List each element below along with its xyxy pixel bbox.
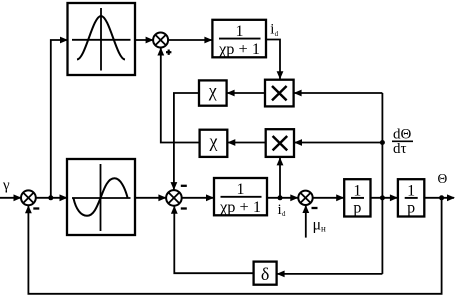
wire D1 output up to S3 bottom [174, 206, 253, 273]
wire theta-dot vertical line [381, 93, 383, 274]
block I1 integrator 1/p first [344, 179, 370, 216]
arrow into M2 right [294, 139, 302, 146]
wire U2 output to S4 [267, 197, 298, 199]
arrow into M2 bottom [277, 157, 284, 165]
arrow into U2 [206, 194, 214, 201]
arrow into S4 left [290, 194, 298, 201]
arrow into S3 left [158, 194, 166, 201]
arrow into cosine block [60, 37, 68, 44]
node theta feedback tap [439, 195, 444, 200]
label mu_H [313, 217, 327, 234]
svg-text:d: d [275, 30, 279, 38]
wire S3 output to U2 [182, 197, 214, 199]
svg-text:γ: γ [2, 178, 10, 194]
block N1 cosine nonlinearity [68, 3, 136, 75]
block N2 sine nonlinearity [67, 159, 135, 235]
block G2 gain chi lower [200, 130, 228, 157]
wire I2 output theta out [424, 197, 454, 199]
summing junction S4 load input [298, 191, 312, 205]
wire branch up to cosine block [51, 40, 68, 198]
svg-text:Θ: Θ [438, 171, 448, 186]
wire theta-dot line into M1 right [294, 92, 382, 94]
arrow into S1 left [146, 37, 154, 44]
wire outer feedback theta to S2 bottom [28, 198, 441, 294]
summing junction S3 after sine [166, 190, 182, 206]
minus sign top at S3 [181, 185, 187, 187]
arrow into D1 right [277, 271, 285, 278]
wire i_d branch up to M2 bottom [279, 157, 281, 197]
arrow into I2 [390, 194, 398, 201]
arrow into G1 right [227, 90, 235, 97]
wire M1 output to G1 [227, 92, 265, 94]
svg-text:χp + 1: χp + 1 [219, 199, 261, 216]
arrow into S2 bottom [25, 205, 32, 213]
wire I1 output to I2 [371, 197, 398, 199]
wire cosine output to S1 [135, 39, 153, 41]
arrow into G2 right [227, 139, 235, 146]
wire S1 output to U1 [168, 39, 212, 41]
wire S2 output to sine block [36, 197, 68, 199]
svg-text:1: 1 [237, 181, 245, 198]
svg-text:p: p [407, 200, 415, 217]
wire U1 output i_d down to M1 [266, 40, 280, 80]
svg-text:dτ: dτ [393, 141, 407, 157]
wire mu_H input up to S4 bottom [305, 206, 307, 238]
svg-text:d: d [282, 210, 286, 218]
minus sign at S4 [312, 207, 318, 209]
arrow output theta [447, 194, 455, 201]
summing junction S2 gamma input [21, 190, 36, 205]
svg-text:χp + 1: χp + 1 [218, 41, 260, 58]
wire G1 output down to S3 top [174, 93, 199, 190]
svg-text:1: 1 [236, 23, 244, 40]
svg-text:н: н [321, 224, 326, 234]
svg-text:χ: χ [208, 81, 217, 101]
arrow into S2 left [14, 194, 22, 201]
plus sign at S1 [166, 50, 171, 55]
minus sign bottom at S3 [181, 207, 187, 209]
wire gamma input to S2 [0, 197, 22, 199]
label i_d bottom [278, 202, 287, 218]
arrow into S1 bottom [157, 48, 164, 56]
block G1 gain chi upper [199, 80, 227, 105]
block M1 multiplier upper [265, 80, 294, 107]
block U1 transfer function 1/(chi p + 1) top [212, 20, 266, 58]
arrow into I1 [336, 194, 344, 201]
wire G2 output up to S1 bottom [161, 48, 200, 143]
wire M2 output to G2 [228, 142, 266, 144]
node theta-dot tap for M2 [380, 140, 385, 145]
label i_d top [270, 22, 278, 39]
block M2 multiplier lower [266, 129, 294, 157]
wire sine output to S3 [135, 197, 166, 199]
svg-text:1: 1 [407, 182, 415, 199]
arrow into M1 right [294, 90, 302, 97]
arrow into S3 top [171, 182, 178, 190]
svg-text:χ: χ [209, 131, 218, 151]
node i_d branch to M2 [278, 195, 283, 200]
block U2 transfer function 1/(chi p + 1) bottom [214, 178, 267, 215]
summing junction S1 [153, 33, 168, 48]
label dTheta/dtau fraction [393, 127, 412, 157]
arrow into sine block [60, 194, 68, 201]
node between integrators [380, 195, 385, 200]
arrow into S3 bottom [171, 206, 178, 214]
svg-text:δ: δ [261, 264, 269, 284]
wire delta feedback from theta-dot line into D1 [277, 273, 382, 275]
svg-text:p: p [353, 200, 361, 217]
block I2 integrator 1/p second [398, 179, 424, 216]
arrow into U1 [204, 37, 212, 44]
node branch to cosine path [48, 195, 53, 200]
block D1 delta feedback gain [254, 262, 277, 285]
wire theta-dot line into M2 right [294, 142, 382, 144]
minus sign at S2 [33, 207, 39, 209]
arrow into M1 top [277, 71, 284, 79]
svg-text:μ: μ [313, 217, 322, 234]
fraction bar of dTheta/dtau [392, 140, 413, 142]
arrow into S4 bottom [302, 205, 309, 213]
wire S4 output to I1 [313, 197, 345, 199]
svg-text:1: 1 [353, 182, 361, 199]
